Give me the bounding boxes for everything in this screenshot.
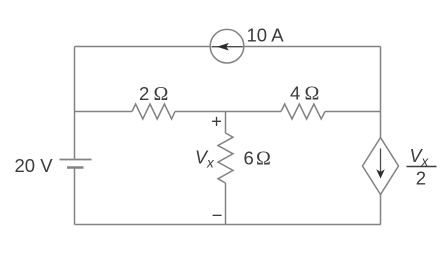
- svg-text:10 A: 10 A: [247, 24, 285, 45]
- current source I1 arrow: [212, 43, 243, 51]
- wire right vertical top: [380, 47, 382, 138]
- wire middle horizontal right: [325, 111, 381, 113]
- wire middle horizontal left: [75, 111, 133, 113]
- resistor 4ohm zigzag: [281, 104, 325, 119]
- wire right vertical bottom: [380, 195, 382, 225]
- resistor 6ohm zigzag vertical: [218, 133, 233, 183]
- svg-text:Vx: Vx: [195, 148, 215, 171]
- wire top left segment: [75, 46, 211, 48]
- battery V1 short plate: [67, 166, 84, 169]
- battery V1 long plate: [60, 159, 92, 161]
- wire middle vertical top: [225, 112, 227, 134]
- svg-text:2: 2: [416, 168, 426, 189]
- wire bottom: [75, 224, 381, 226]
- wire left vertical bottom: [74, 169, 76, 225]
- wire middle vertical bottom: [225, 183, 227, 225]
- label Vx/2 fraction bar: [407, 166, 437, 168]
- svg-text:6Ω: 6Ω: [244, 148, 271, 170]
- dependent source diamond: [363, 138, 399, 195]
- svg-text:4Ω: 4Ω: [290, 83, 319, 105]
- svg-text:2Ω: 2Ω: [139, 83, 168, 105]
- svg-text:20 V: 20 V: [15, 155, 54, 176]
- wire middle horizontal center: [175, 111, 281, 113]
- dependent source arrow: [376, 149, 385, 179]
- wire left vertical top: [74, 47, 76, 159]
- svg-text:+: +: [211, 111, 222, 132]
- resistor 2ohm zigzag: [132, 104, 175, 119]
- wire top right segment: [244, 46, 381, 48]
- svg-text:Vx: Vx: [410, 146, 430, 169]
- svg-text:−: −: [212, 204, 223, 225]
- current source I1 circle: [210, 29, 244, 63]
